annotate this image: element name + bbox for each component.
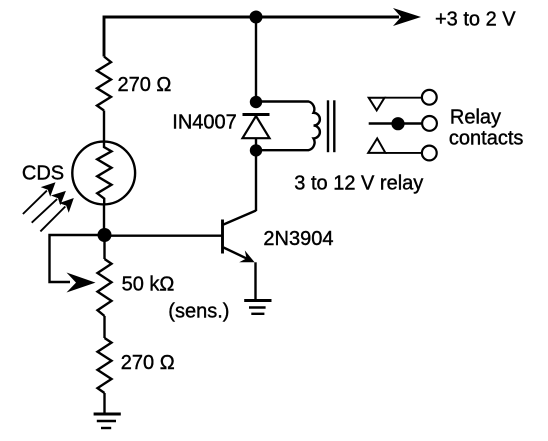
wire junction left and down to wiper [50,235,105,282]
wire from top junction down to diode top node [255,17,257,102]
potentiometer wiper arrow [67,273,96,293]
relay contact NC: triangle contact row 1 [369,90,437,111]
light arrow 2 [32,191,66,223]
node junction dot top rail [250,11,263,24]
light arrow 1 [23,182,56,214]
power arrow head [393,8,421,26]
node diode top dot [250,96,262,108]
svg-text:CDS: CDS [22,163,64,185]
svg-text:270 Ω: 270 Ω [118,74,172,96]
node base junction dot [98,228,112,242]
wire base junction to transistor base [105,234,223,236]
ground right (emitter) [244,301,271,314]
wire top rail from left branch to power arrow [104,17,399,57]
transistor Q1 2N3904 collector lead [224,211,257,225]
svg-text:(sens.): (sens.) [168,301,229,323]
svg-text:270 Ω: 270 Ω [121,352,175,374]
potentiometer 50 kohm resistor body [98,259,112,316]
transistor Q1 base bar [221,220,224,254]
wire potentiometer to R2 [103,316,105,338]
photocell CDS circle [72,142,135,205]
wire photocell to base junction [103,204,105,235]
relay core bar 1 [327,100,329,152]
node diode bottom dot [250,144,262,156]
wire junction down to potentiometer [103,235,105,259]
wire emitter to ground [254,262,256,300]
light arrow 3 [40,198,73,231]
svg-text:Relay: Relay [450,107,501,129]
svg-text:50 kΩ: 50 kΩ [122,274,175,296]
svg-text:IN4007: IN4007 [172,112,237,134]
svg-text:3 to 12 V relay: 3 to 12 V relay [294,173,423,195]
relay contact common: row 2 with pole dot [369,116,437,131]
relay contact NO: triangle contact row 3 [368,138,436,160]
wire resistor R1 to photocell [103,111,105,143]
relay core bar 2 [333,100,335,152]
ground left [94,414,121,428]
diode IN4007 [243,115,270,151]
resistor R1 270 ohm (top) [97,57,111,111]
svg-text:contacts: contacts [449,128,523,150]
label Relay contacts [449,107,523,150]
svg-text:+3 to 2 V: +3 to 2 V [435,9,516,31]
transistor Q1 emitter lead with arrow [224,248,255,263]
relay coil K1 [256,102,320,151]
wire R2 to ground [103,393,105,414]
wire diode bottom node to transistor collector [255,150,257,211]
svg-text:2N3904: 2N3904 [263,228,333,250]
photocell CDS internal resistor zigzag [97,142,111,204]
resistor R2 270 ohm (bottom) [98,338,112,393]
